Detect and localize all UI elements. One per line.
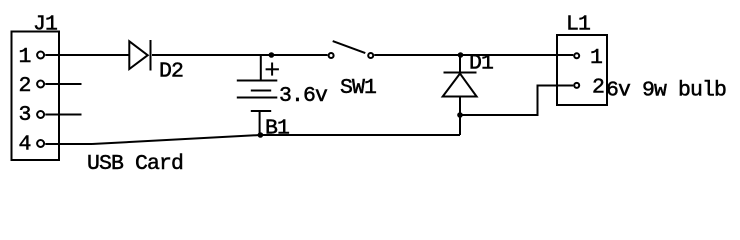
node D1 bottom junction [457,112,463,118]
diode D1 [443,55,477,115]
svg-text:SW1: SW1 [340,76,376,100]
node battery bottom junction [258,132,264,138]
connector L1 [557,35,607,105]
wire J1 pin3 stub [45,114,81,116]
svg-text:B1: B1 [265,117,289,141]
switch SW1 [329,41,374,58]
wire D1 junction to L1 pin2 [460,86,573,116]
wire bottom rail battery to D1 corner [260,134,460,136]
wire J1 pin4 diagonal to battery node [92,135,260,144]
wire SW1 to L1 pin1 [374,54,573,56]
svg-text:3.6v: 3.6v [279,84,328,108]
svg-text:4: 4 [19,133,31,157]
svg-text:1: 1 [19,45,31,69]
wire J1 pin2 stub [45,83,81,85]
svg-text:2: 2 [592,76,604,100]
svg-text:USB Card: USB Card [87,152,183,176]
wire J1 pin4 horizontal [45,143,92,145]
wire D2 to switch SW1 [152,54,328,56]
svg-text:L1: L1 [566,13,590,37]
svg-text:J1: J1 [33,13,57,37]
node battery top junction [269,52,275,58]
svg-text:D1: D1 [469,52,493,76]
node D1 top junction [458,52,464,58]
wire bottom rail riser [459,115,461,135]
svg-text:1: 1 [590,46,602,70]
battery B1 [237,55,279,135]
connector J1 [12,32,60,161]
svg-text:6v 9w bulb: 6v 9w bulb [606,79,726,103]
diode D2 [129,40,150,71]
svg-text:3: 3 [19,103,31,127]
svg-text:2: 2 [19,74,31,98]
svg-text:D2: D2 [159,60,183,84]
wire J1 pin1 to D2 [45,54,129,56]
